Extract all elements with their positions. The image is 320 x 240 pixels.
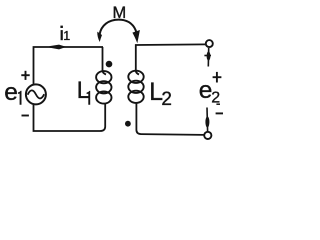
svg-text:L: L [77, 77, 90, 104]
svg-text:e: e [4, 79, 18, 106]
svg-text:2: 2 [211, 90, 220, 107]
svg-text:1: 1 [63, 29, 70, 43]
svg-text:2: 2 [161, 89, 172, 110]
svg-text:M: M [113, 4, 127, 22]
